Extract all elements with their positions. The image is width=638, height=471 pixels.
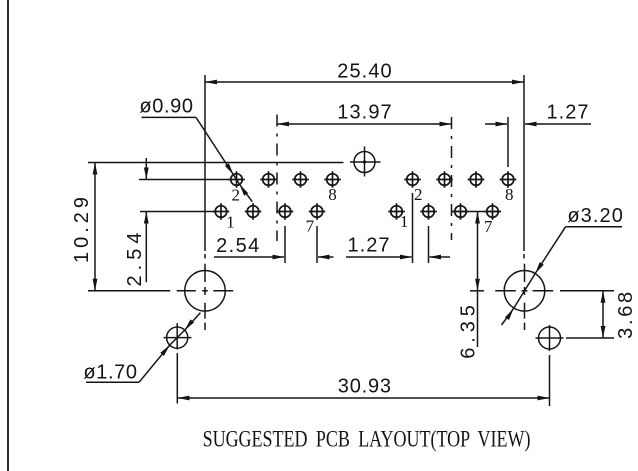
svg-text:SUGGESTED PCB LAYOUT(TOP VIEW): SUGGESTED PCB LAYOUT(TOP VIEW) [203, 425, 531, 452]
big right mounting hole [504, 271, 545, 312]
small left hole (1.70) [167, 327, 188, 348]
dim 1.27 top right tails [485, 123, 507, 125]
extension below small left hole [176, 353, 178, 404]
svg-text:2: 2 [231, 185, 240, 204]
svg-text:2.54: 2.54 [216, 235, 261, 257]
extension lines pins col 285 and 317 [284, 226, 286, 263]
svg-text:3.68: 3.68 [615, 289, 637, 339]
svg-text:1: 1 [226, 212, 235, 231]
construction line bottom pin row connector2 (y=211.5) [452, 211, 501, 213]
svg-text:7: 7 [484, 217, 493, 236]
leader 3.20 [566, 226, 623, 228]
small right hole [539, 327, 561, 349]
centerline right big hole horizontal dashes (y=290.8) [470, 290, 484, 292]
construction line bottom left (y=290.8) [88, 290, 170, 292]
dim line 6.35 vertical [477, 212, 479, 348]
svg-text:1.27: 1.27 [348, 235, 391, 257]
dim line 25.40 [205, 81, 524, 83]
svg-text:8: 8 [328, 185, 337, 204]
pins connector2 top row (2,4,6,8) [404, 171, 421, 188]
svg-text:ø0.90: ø0.90 [139, 96, 193, 118]
big left mounting hole [185, 271, 226, 312]
svg-text:1: 1 [400, 212, 409, 231]
dim 1.27 bottom tails [346, 256, 412, 258]
construction line big top hole center (y=162.5) [88, 162, 344, 164]
svg-text:ø1.70: ø1.70 [83, 361, 137, 383]
svg-text:1.27: 1.27 [547, 102, 590, 124]
centerline connector2 (x=451.5 dash-dot) [451, 117, 453, 240]
extension below small right hole [549, 355, 551, 406]
extension lines pins col 412.5 and 428.5 [412, 193, 414, 263]
pins connector1 bottom row (1,3,5,7) [213, 203, 230, 220]
arrowheads for dimensions and leaders [205, 80, 217, 85]
construction line bottom pin row (y=211.5) [140, 211, 214, 213]
svg-text:ø3.20: ø3.20 [567, 205, 624, 227]
pins connector1 top row (2,4,6,8) [228, 171, 245, 188]
frame left border [7, 0, 9, 471]
svg-text:2: 2 [414, 185, 423, 204]
construction line top pin row (y=179.5) [139, 179, 229, 181]
extension line to 3.68 top (y=290.8) [560, 290, 614, 292]
svg-text:2.54: 2.54 [124, 228, 146, 287]
centerline connector1 (x=277 dash-dot) [276, 115, 278, 242]
dim line 3.68 vertical [602, 291, 604, 338]
dim line 13.97 [277, 123, 452, 125]
dim line 10.29 vertical [94, 163, 96, 291]
svg-text:30.93: 30.93 [338, 376, 392, 398]
svg-text:6.35: 6.35 [458, 300, 480, 359]
leader 0.90: underline, diagonal, chord, tail [142, 116, 197, 118]
center/extension line right big hole (x=524) [523, 75, 525, 251]
leader 1.70 [86, 381, 139, 383]
svg-text:25.40: 25.40 [337, 61, 393, 83]
dim 2.54 left vertical tails [145, 158, 147, 180]
pins connector2 bottom row (1,3,5,7) [388, 203, 405, 220]
svg-text:7: 7 [306, 216, 315, 235]
svg-text:10.29: 10.29 [71, 193, 93, 263]
extension line to 3.68 bottom (y=338) [566, 337, 614, 339]
extension line pin8 column (x=508) [507, 117, 509, 167]
dim line 30.93 [178, 397, 550, 399]
dim 2.54 bottom tails [214, 256, 284, 258]
svg-text:13.97: 13.97 [337, 102, 393, 124]
svg-text:8: 8 [505, 185, 514, 204]
centerline dashes left big hole horizontal [177, 290, 196, 292]
center/extension line left big hole (x=205) [204, 75, 206, 251]
big top hole [354, 152, 375, 173]
